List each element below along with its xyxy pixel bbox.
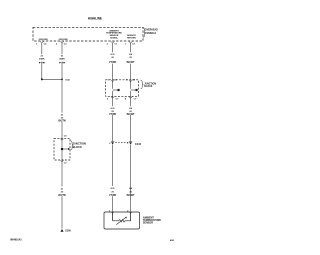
svg-text:A081: A081 <box>170 239 174 242</box>
svg-text:RETURN: RETURN <box>127 38 136 40</box>
svg-text:20BK: 20BK <box>39 59 45 61</box>
svg-text:C234: C234 <box>135 143 142 146</box>
svg-text:GROUND: GROUND <box>59 39 69 41</box>
svg-text:BLOCK: BLOCK <box>73 145 82 149</box>
svg-text:BK/WT: BK/WT <box>127 194 135 197</box>
svg-text:20BK: 20BK <box>59 59 65 61</box>
svg-text:VT/RD: VT/RD <box>109 113 116 116</box>
svg-text:BK/TN: BK/TN <box>58 120 66 123</box>
svg-text:JUNCTION: JUNCTION <box>144 83 156 85</box>
svg-text:VT/RD: VT/RD <box>109 194 116 197</box>
svg-text:CONSOLE: CONSOLE <box>145 33 157 35</box>
svg-text:GROUND: GROUND <box>39 39 49 41</box>
svg-text:8W4910A5: 8W4910A5 <box>10 239 22 242</box>
svg-text:OVERHEAD: OVERHEAD <box>145 29 158 32</box>
svg-text:G300: G300 <box>65 229 71 233</box>
svg-text:BK/WT: BK/WT <box>127 113 135 116</box>
svg-text:SENSOR: SENSOR <box>143 222 153 225</box>
svg-text:VT/RD: VT/RD <box>109 61 116 64</box>
svg-text:BLOCK: BLOCK <box>144 86 153 88</box>
svg-text:HIGHLINE: HIGHLINE <box>88 17 102 21</box>
svg-text:BK/WT: BK/WT <box>127 61 135 64</box>
svg-text:BK/TN: BK/TN <box>58 194 66 197</box>
svg-text:SIGNAL: SIGNAL <box>110 37 119 40</box>
